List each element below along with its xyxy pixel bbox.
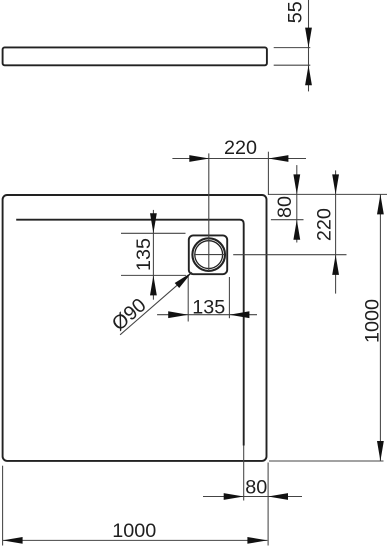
side view tray outline (3, 47, 267, 65)
svg-text:1000: 1000 (361, 299, 383, 343)
arrow 135h right (229, 311, 249, 318)
dimension line 80 bottom (203, 496, 302, 498)
extension line drain center right (233, 254, 346, 256)
svg-text:135: 135 (133, 238, 155, 271)
drain inner circle (195, 241, 223, 269)
arrow 220 right upper (332, 174, 339, 194)
leader line diameter 90 (120, 272, 192, 335)
drain outer circle (192, 238, 225, 271)
drain square (189, 235, 227, 274)
plan view inner rim line (16, 220, 244, 446)
plan view outer square (3, 195, 267, 461)
arrow 80 bottom right (268, 493, 288, 500)
arrow 80 bottom left (224, 493, 244, 500)
extension line rim right (271, 219, 304, 221)
svg-text:80: 80 (245, 477, 267, 499)
arrow 1000 bottom left (3, 537, 23, 544)
arrow 1000 right top (377, 194, 384, 214)
arrow 220 right lower (332, 255, 339, 275)
extension line top edge right (268, 193, 387, 195)
arrow 1000 bottom right (247, 537, 267, 544)
arrow 135h left (168, 311, 188, 318)
extension line right corner up (267, 152, 269, 195)
svg-text:220: 220 (314, 208, 336, 241)
drain centerline horizontal (194, 254, 225, 256)
dimension line 220 right (335, 170, 337, 293)
dimension line 1000 bottom (3, 539, 268, 541)
arrow 80 lower (293, 220, 300, 240)
dimension line 135 vertical (152, 210, 154, 300)
dimension line 135 horizontal (157, 314, 257, 316)
arrow 220 top left (189, 155, 209, 162)
side view extension line bottom (274, 64, 311, 66)
extension line bottom edge right (269, 460, 384, 462)
drain centerline vertical / extension for 220 top (208, 153, 210, 271)
extension line bottom right corner down (267, 463, 269, 546)
extension line 135h right (228, 277, 230, 318)
dimension line 80 top right (296, 165, 298, 242)
arrow 80 upper (293, 174, 300, 194)
dimension line 55 (308, 0, 310, 91)
dimension line 1000 right (379, 194, 381, 461)
arrow 55 bottom (305, 65, 312, 85)
arrow 55 top (305, 28, 312, 48)
extension line bottom left corner down (2, 466, 4, 546)
side view extension line top (274, 47, 311, 49)
svg-text:1000: 1000 (112, 520, 156, 542)
extension line 135h left (187, 275, 189, 322)
arrow 220 top right (268, 155, 288, 162)
extension line 135 lower (121, 274, 186, 276)
arrow 135v lower (150, 275, 157, 295)
svg-text:55: 55 (285, 1, 307, 23)
svg-text:135: 135 (192, 296, 225, 318)
leader arrowhead (175, 272, 192, 288)
arrow 1000 right bottom (377, 441, 384, 461)
svg-text:80: 80 (274, 196, 296, 218)
dimension line 220 top (172, 158, 306, 160)
extension line inner rim down (243, 446, 245, 501)
extension line 135 upper (121, 232, 186, 234)
arrow 135v upper (150, 213, 157, 233)
svg-text:220: 220 (224, 137, 257, 159)
